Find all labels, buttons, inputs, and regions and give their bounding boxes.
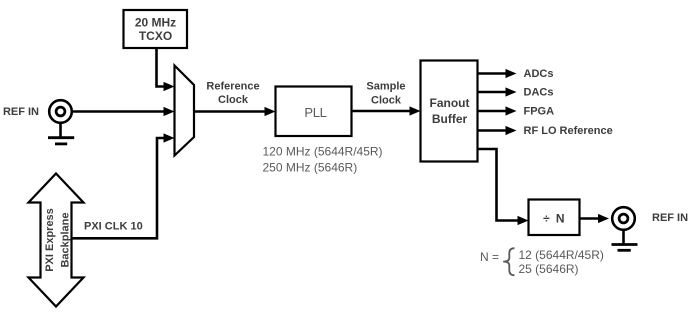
svg-text:REF IN: REF IN xyxy=(652,212,688,224)
wire: fanout output to ADCs xyxy=(478,69,517,78)
svg-text:Clock: Clock xyxy=(218,94,249,106)
svg-text:PLL: PLL xyxy=(304,105,326,120)
svg-text:FPGA: FPGA xyxy=(524,106,555,118)
wire: REF IN to mux input 2 xyxy=(73,107,175,116)
oscillator box: 20 MHz TCXO xyxy=(124,10,188,48)
ground (left) xyxy=(48,123,74,144)
svg-text:12 (5644R/45R): 12 (5644R/45R) xyxy=(519,248,604,262)
box: Fanout Buffer U2 xyxy=(421,61,478,162)
label: N = divider values with brace xyxy=(480,248,604,276)
svg-text:÷ N: ÷ N xyxy=(543,212,566,226)
svg-text:ADCs: ADCs xyxy=(524,68,554,80)
wire: mux output to PLL (Reference Clock) xyxy=(194,107,276,116)
svg-text:PXI Express: PXI Express xyxy=(44,208,56,272)
label: Sample Clock xyxy=(366,81,405,107)
svg-text:Fanout: Fanout xyxy=(430,96,470,110)
svg-text:PXI CLK 10: PXI CLK 10 xyxy=(84,221,143,233)
connector: REF IN coax jack (left) xyxy=(49,100,72,123)
svg-text:RF LO Reference: RF LO Reference xyxy=(524,125,613,137)
PXI Express Backplane double arrow xyxy=(29,174,84,307)
svg-text:Backplane: Backplane xyxy=(60,212,72,267)
svg-text:N =: N = xyxy=(480,250,499,264)
connector: REF IN coax jack (right) xyxy=(612,207,635,230)
wire: fanout output to divider xyxy=(478,149,529,225)
mux (clock source selector) xyxy=(175,66,195,156)
svg-text:Buffer: Buffer xyxy=(432,112,468,126)
wire: divider to REF IN connector (right) xyxy=(580,214,610,223)
ground (right) xyxy=(612,230,638,250)
wire: fanout output to DACs xyxy=(478,87,517,96)
wire: TCXO output to mux input 1 xyxy=(157,49,175,91)
svg-text:120 MHz (5644R/45R): 120 MHz (5644R/45R) xyxy=(263,144,383,158)
wire: fanout output to FPGA xyxy=(478,106,517,115)
svg-text:Clock: Clock xyxy=(371,95,402,107)
svg-text:25 (5646R): 25 (5646R) xyxy=(519,262,579,276)
svg-text:TCXO: TCXO xyxy=(139,29,172,43)
svg-text:250 MHz (5646R): 250 MHz (5646R) xyxy=(263,160,358,174)
svg-text:20 MHz: 20 MHz xyxy=(135,16,176,30)
svg-text:Sample: Sample xyxy=(366,81,405,93)
label: Reference Clock xyxy=(206,81,259,107)
box: PLL U1 xyxy=(276,87,352,137)
svg-text:Reference: Reference xyxy=(206,81,259,93)
wire: fanout output to RF LO Reference xyxy=(478,126,517,135)
box: divider (divide by N) xyxy=(529,200,580,236)
svg-text:DACs: DACs xyxy=(524,87,554,99)
wire: backplane PXI CLK 10 to mux input 3 xyxy=(71,133,175,238)
svg-text:REF IN: REF IN xyxy=(3,106,39,118)
label: PLL output frequencies xyxy=(263,144,383,174)
wire: PLL to Fanout Buffer (Sample Clock) xyxy=(352,106,421,115)
